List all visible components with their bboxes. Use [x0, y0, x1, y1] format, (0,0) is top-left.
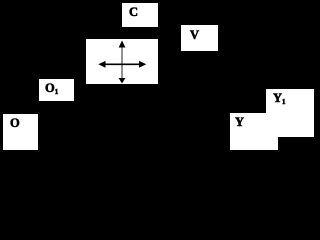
wire up arrowhead: [119, 41, 126, 48]
node Y1: [266, 89, 314, 137]
node Y: [230, 113, 278, 150]
wire left arrowhead: [98, 61, 105, 68]
node V: [181, 25, 218, 51]
move arrows: [86, 39, 158, 85]
wire down arrowhead: [119, 78, 126, 84]
central pan box: [86, 39, 158, 84]
node O: [3, 114, 38, 150]
wire horizontal stem: [103, 63, 141, 65]
wire vertical stem: [121, 45, 123, 80]
wire right arrowhead: [139, 61, 146, 68]
node O1: [39, 79, 74, 101]
node C: [122, 3, 158, 27]
